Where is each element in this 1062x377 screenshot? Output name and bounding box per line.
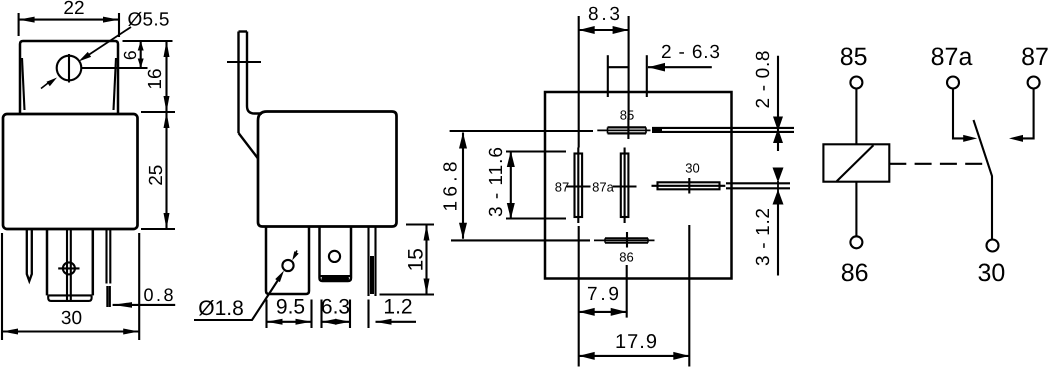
svg-text:2 - 6.3: 2 - 6.3: [661, 42, 720, 63]
switch blade: [974, 120, 993, 239]
dim 2-0.8: [753, 51, 783, 152]
dim 2-6.3: [608, 42, 720, 97]
pin wide hole: [282, 260, 293, 271]
svg-text:86: 86: [841, 259, 869, 287]
slot 87: [567, 148, 591, 224]
dim 7.9: [579, 226, 627, 367]
svg-text:85: 85: [620, 108, 634, 123]
bracket side: [239, 32, 263, 159]
svg-text:87: 87: [555, 180, 569, 195]
pin middle side: [320, 227, 352, 282]
terminal 87: [1021, 43, 1049, 89]
dim 3-11.6: [486, 147, 566, 219]
pin right front: [107, 230, 111, 284]
wire coil to 86: [855, 182, 857, 236]
svg-text:16.8: 16.8: [440, 162, 461, 212]
base outline: [545, 92, 732, 279]
svg-text:3 - 1.2: 3 - 1.2: [753, 208, 774, 266]
svg-text:85: 85: [840, 43, 868, 71]
svg-text:1.2: 1.2: [383, 296, 412, 319]
terminal 85: [840, 43, 868, 89]
svg-text:Ø5.5: Ø5.5: [128, 10, 170, 31]
blade 30 edge-on: [726, 183, 790, 188]
bracket crosshair: [227, 61, 261, 63]
dim 6.3: [321, 296, 350, 329]
pin left front: [27, 230, 32, 282]
dim 9.5: [267, 296, 312, 329]
svg-text:30: 30: [977, 259, 1005, 287]
svg-text:17.9: 17.9: [615, 331, 657, 353]
svg-text:86: 86: [619, 250, 633, 265]
wire 87a with arrow: [953, 89, 977, 142]
leader Ø5.5: [79, 27, 132, 62]
dim 16.8: [440, 131, 593, 240]
svg-text:22: 22: [63, 0, 84, 19]
tab inner edge right: [114, 58, 117, 110]
svg-text:6.3: 6.3: [321, 296, 350, 319]
terminal 86: [841, 236, 869, 287]
svg-text:87a: 87a: [592, 180, 614, 195]
dim 0.8: [113, 285, 176, 308]
hole horizontal centerline to dim: [82, 67, 148, 69]
svg-text:2 - 0.8: 2 - 0.8: [753, 51, 774, 109]
svg-text:15: 15: [405, 248, 428, 271]
slot 30: [652, 178, 726, 194]
pin wide side: [266, 227, 309, 295]
svg-text:0.8: 0.8: [144, 285, 174, 305]
slot 87a: [613, 148, 637, 224]
dim 16: [145, 41, 170, 112]
leader Ø1.8: [194, 271, 284, 321]
dim 1.2: [369, 296, 417, 329]
tab inner edge left: [22, 58, 25, 110]
dim 8.3: [579, 4, 629, 148]
svg-text:25: 25: [146, 165, 167, 186]
mounting hole: [57, 56, 82, 81]
svg-text:7.9: 7.9: [587, 284, 619, 305]
terminal 30: [977, 240, 1005, 288]
hole small arrow: [41, 78, 57, 89]
svg-text:87: 87: [1021, 43, 1049, 71]
svg-text:Ø1.8: Ø1.8: [198, 297, 244, 320]
svg-text:8.3: 8.3: [588, 4, 620, 25]
pin center crosshair: [63, 262, 75, 274]
pin center front: [47, 230, 93, 296]
svg-text:30: 30: [61, 308, 82, 329]
svg-text:30: 30: [685, 161, 699, 176]
dim 30: [2, 233, 139, 340]
pin center blade lines: [67, 230, 71, 301]
svg-text:87a: 87a: [931, 43, 973, 71]
dim 17.9: [579, 225, 690, 367]
dim 6: [120, 41, 173, 68]
body bottom ext line: [141, 228, 175, 230]
relay body side: [258, 112, 397, 227]
svg-text:9.5: 9.5: [276, 296, 305, 319]
wire 87 with arrow: [1009, 89, 1034, 142]
slot 85: [597, 118, 650, 139]
svg-text:16: 16: [145, 68, 166, 89]
pin middle hole: [329, 251, 340, 262]
blade 85 edge-on: [652, 128, 794, 132]
terminal 87a: [931, 43, 973, 89]
svg-text:3 - 11.6: 3 - 11.6: [486, 147, 507, 217]
dashed link coil to switch: [889, 163, 985, 165]
body top ext line: [141, 111, 175, 113]
coil K1: [823, 144, 889, 181]
hole vertical centerline: [68, 54, 70, 83]
relay body front: [3, 114, 138, 229]
pin thin side: [369, 227, 376, 297]
dim 15: [380, 225, 435, 295]
pin wide hole arrow: [292, 251, 298, 261]
wire 85 to coil: [855, 89, 857, 145]
slot 86: [594, 232, 655, 248]
svg-text:6: 6: [120, 50, 140, 60]
dim 3-1.2: [753, 168, 784, 276]
mounting tab front: [20, 41, 118, 114]
dim 25: [146, 112, 170, 229]
dim 22: [19, 0, 119, 37]
pin middle fold line: [321, 275, 351, 277]
